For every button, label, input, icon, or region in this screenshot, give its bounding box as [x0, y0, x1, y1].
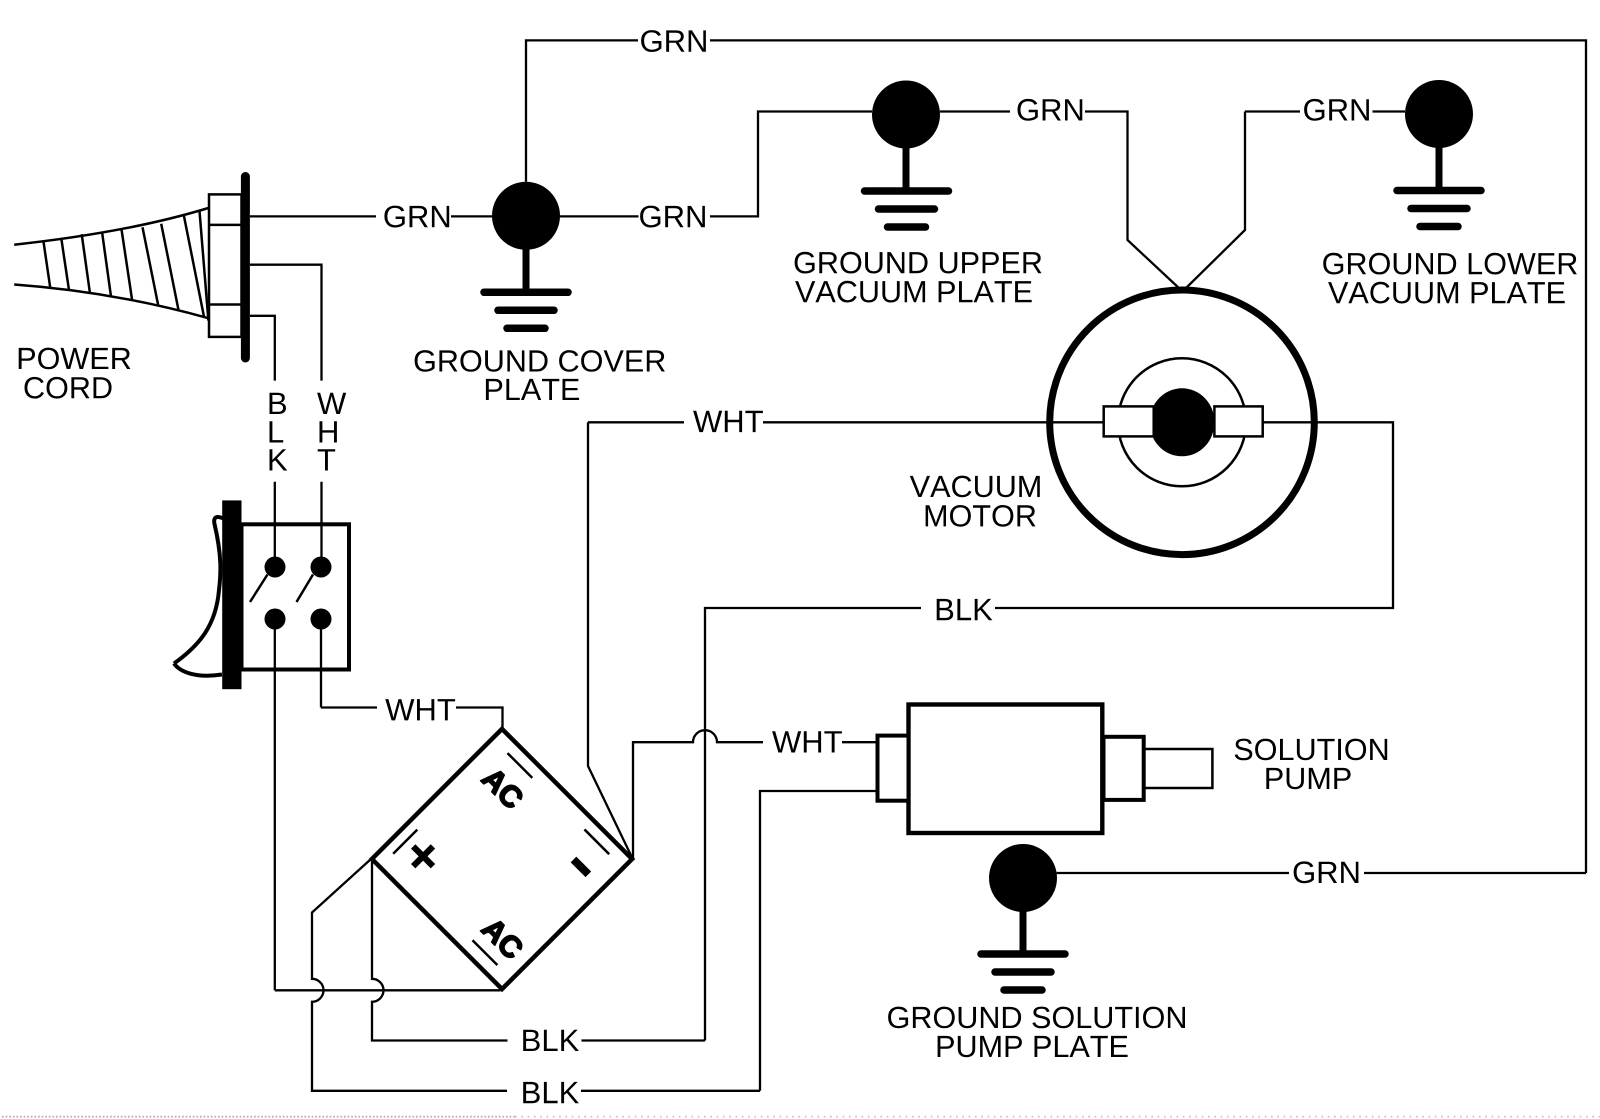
dotted page separator [2, 1116, 515, 1118]
label WHT vertical column [317, 393, 346, 471]
wire GRN cover plate up [526, 40, 638, 181]
bridge rectifier [372, 729, 632, 989]
power cord plate bar [241, 177, 250, 359]
wire WHT rectifier minus to pump (hop over vertical) [633, 730, 763, 859]
label GRN (upper ground) [1018, 99, 1083, 121]
node ground upper vacuum plate circle [872, 81, 940, 149]
label BLK vertical column [270, 393, 288, 471]
wire GRN lower ground to motor [1185, 112, 1406, 290]
wire BLK switch to rectifier AC bottom [275, 989, 501, 991]
ground upper earth symbol [865, 144, 949, 227]
wire BLK rectifier plus down (hop) [372, 859, 508, 1041]
wire BLK pump lower terminal [760, 791, 878, 1091]
label POWER CORD [19, 348, 131, 399]
wire BLK from power cord [250, 316, 275, 557]
label GRN (right of cover plate) [640, 206, 705, 228]
wire GRN top to right border [710, 40, 1586, 873]
wire GRN cover plate right [560, 112, 872, 217]
label GROUND LOWER VACUUM PLATE [1323, 253, 1577, 304]
ground cover plate earth symbol [484, 245, 568, 328]
solution pump right port [1104, 737, 1144, 800]
wire WHT from power cord [250, 265, 322, 557]
vacuum motor armature [1150, 388, 1215, 456]
wire WHT motor to rectifier minus [588, 422, 633, 858]
wire BLK motor right [705, 422, 1393, 1040]
wire BLK below switch [274, 629, 276, 990]
power cord strain relief cone [14, 208, 208, 321]
label GROUND UPPER VACUUM PLATE [795, 252, 1042, 303]
label GRN (power cord) [384, 206, 449, 228]
switch contact ticks [250, 575, 313, 603]
node ground solution pump circle [989, 844, 1057, 912]
wire WHT switch to rectifier [321, 708, 503, 732]
wire WHT to motor [588, 421, 1104, 423]
label GRN (bottom) [1294, 861, 1359, 883]
vacuum motor outer housing [1050, 290, 1315, 555]
ground solution pump earth symbol [981, 908, 1065, 990]
wire BLK rectifier plus diagonal down (hop) [312, 859, 507, 1091]
label WHT (motor) [693, 411, 763, 432]
rectifier minus terminal [573, 859, 588, 874]
label WHT (pump) [772, 731, 842, 752]
switch lever [174, 517, 223, 676]
rectifier plus terminal [403, 837, 443, 877]
vacuum motor right brush [1214, 406, 1262, 436]
vacuum motor left brush [1104, 406, 1154, 436]
label BLK (motor) [937, 599, 993, 620]
switch body [242, 524, 350, 669]
power cord plug block [209, 194, 242, 337]
solution pump left port [878, 736, 909, 801]
label SOLUTION PUMP [1235, 739, 1388, 790]
rectifier AC terminal (top) [481, 766, 525, 810]
wire GRN from power cord [250, 215, 493, 217]
label BLK (bottom) [523, 1082, 579, 1103]
label WHT (switch to rectifier) [385, 699, 455, 720]
solution pump nozzle [1144, 749, 1213, 788]
label VACUUM MOTOR [910, 476, 1040, 527]
label GROUND COVER PLATE [415, 350, 665, 400]
node ground lower vacuum plate circle [1405, 80, 1473, 148]
wire GRN pump ground to right border [1057, 872, 1586, 874]
solution pump body [909, 705, 1103, 834]
wire WHT below switch [320, 629, 322, 708]
switch mounting bar [222, 500, 241, 689]
vacuum motor inner circle [1118, 358, 1246, 486]
label GRN (top) [641, 30, 706, 52]
rectifier AC terminal (bottom) [480, 916, 524, 960]
ground lower earth symbol [1397, 144, 1481, 227]
label GROUND SOLUTION PUMP PLATE [888, 1007, 1185, 1058]
node ground cover plate circle [492, 182, 560, 250]
label BLK (middle) [523, 1030, 579, 1051]
switch contact dots [265, 557, 332, 630]
label GRN (lower ground) [1304, 99, 1369, 121]
wire GRN upper ground to motor [940, 112, 1181, 290]
